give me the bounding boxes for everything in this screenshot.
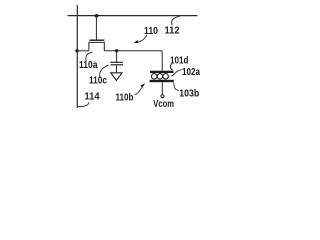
leader for 110a (86, 52, 93, 61)
gate line (horizontal bus, net 112) (68, 15, 198, 17)
LC molecules 102a (three circles) (151, 74, 157, 80)
Vcom terminal circle (161, 95, 164, 98)
node: source junction dot on data line (75, 49, 78, 52)
leader for 102a (171, 70, 182, 76)
transistor 110a (TFT) gate bar (89, 39, 104, 41)
wire: capacitor bottom lead (116, 65, 118, 72)
wire: gate lead down to TFT gate (95, 16, 97, 40)
node: storage capacitor junction dot (115, 49, 118, 52)
wire: LC cell top lead (161, 51, 163, 71)
svg-text:110b: 110b (116, 93, 134, 104)
svg-text:103b: 103b (179, 89, 199, 100)
svg-text:110a: 110a (79, 60, 98, 71)
leader arrow for 110 (137, 35, 147, 43)
svg-text:Vcom: Vcom (153, 99, 174, 110)
wire: drain to pixel node (104, 50, 162, 52)
svg-text:114: 114 (85, 92, 100, 103)
leader for 112 (172, 16, 180, 25)
wire: source to data line (77, 50, 89, 52)
leader for 101d (170, 64, 173, 70)
capacitor 110c plates (110, 61, 123, 63)
wire: capacitor top lead (116, 51, 118, 62)
svg-text:102a: 102a (182, 67, 200, 78)
leader arrow for 110b (135, 87, 142, 94)
svg-text:110c: 110c (89, 76, 107, 87)
transistor 110a (TFT) channel with source/drain legs (89, 42, 104, 50)
leader for 114 (77, 102, 89, 106)
wire: LC cell bottom lead to Vcom (161, 82, 163, 95)
svg-text:112: 112 (165, 26, 180, 37)
leader for 103b (174, 83, 179, 91)
node: gate junction dot (95, 14, 99, 18)
LC cell bottom electrode 103b (150, 80, 174, 82)
ground (common) triangle under capacitor (111, 73, 122, 81)
LC cell top electrode 101d (150, 71, 173, 73)
svg-text:101d: 101d (170, 55, 189, 66)
data line (vertical bus, net 114) (76, 5, 78, 108)
leader for 110c (100, 65, 109, 77)
